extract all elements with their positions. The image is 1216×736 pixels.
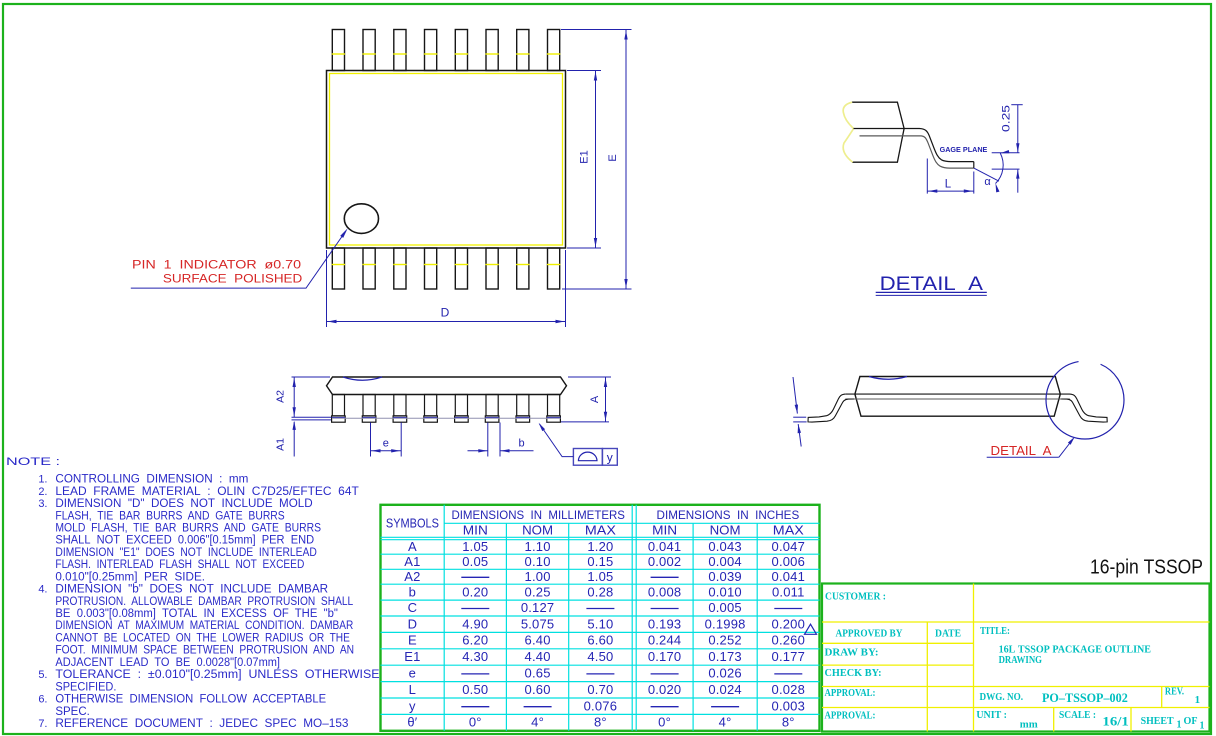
svg-text:0.041: 0.041 xyxy=(772,569,806,584)
svg-text:4.90: 4.90 xyxy=(462,616,488,631)
end view top arc mark xyxy=(869,377,907,380)
top view upper pin 8 xyxy=(548,30,560,71)
svg-text:DIMENSION "b" DOES NOT INC: DIMENSION "b" DOES NOT INCLUDE DAMBAR xyxy=(55,584,328,596)
svg-text:5.: 5. xyxy=(38,669,47,681)
top view lower pin 5 xyxy=(455,248,467,289)
svg-text:ADJACENT LEAD TO BE 0.0028: ADJACENT LEAD TO BE 0.0028"[0.07mm] xyxy=(55,657,280,669)
seating plane line through feet xyxy=(332,417,561,419)
svg-text:A: A xyxy=(408,539,417,554)
svg-text:0.043: 0.043 xyxy=(708,539,742,554)
svg-text:α: α xyxy=(984,176,991,188)
front view pin 8 xyxy=(548,395,560,416)
svg-text:OF: OF xyxy=(1184,716,1198,727)
dimension table green frame xyxy=(381,505,820,731)
svg-text:PO–TSSOP–002: PO–TSSOP–002 xyxy=(1042,691,1128,705)
svg-text:b: b xyxy=(409,584,416,599)
dimension b lines with outside arrows xyxy=(468,450,488,452)
svg-text:REV.: REV. xyxy=(1165,687,1185,698)
svg-text:UNIT :: UNIT : xyxy=(976,710,1007,721)
svg-text:1: 1 xyxy=(1177,720,1182,731)
front view pin 2 xyxy=(363,395,375,416)
svg-text:e: e xyxy=(383,438,389,450)
title block outer frame xyxy=(822,584,1210,732)
svg-text:y: y xyxy=(607,451,613,465)
seating plane datum symbol box xyxy=(573,449,602,466)
top view upper pin 6 xyxy=(486,30,498,71)
svg-text:FLASH, TIE BAR BURRS AND: FLASH, TIE BAR BURRS AND GATE BURRS xyxy=(55,510,285,522)
top view lower pin 4 xyxy=(425,248,437,289)
svg-text:0.076: 0.076 xyxy=(584,698,618,713)
svg-text:5.075: 5.075 xyxy=(521,616,555,631)
svg-text:FOOT. MINIMUM SPACE BETWEEN: FOOT. MINIMUM SPACE BETWEEN PROTRUSION A… xyxy=(55,645,354,657)
svg-text:DRAWING: DRAWING xyxy=(999,655,1043,666)
pin 1 indicator circle xyxy=(344,204,378,234)
svg-text:0.041: 0.041 xyxy=(648,539,682,554)
svg-text:0.252: 0.252 xyxy=(708,633,742,648)
svg-text:1: 1 xyxy=(1200,721,1205,732)
svg-text:MIN: MIN xyxy=(463,523,488,537)
svg-text:16/1: 16/1 xyxy=(1102,715,1129,729)
svg-text:16-pin TSSOP: 16-pin TSSOP xyxy=(1090,556,1203,579)
svg-text:CONTROLLING DIMENSION : mm: CONTROLLING DIMENSION : mm xyxy=(55,474,248,486)
svg-text:APPROVAL:: APPROVAL: xyxy=(825,711,876,722)
svg-text:DETAIL A: DETAIL A xyxy=(991,443,1052,458)
svg-text:NOM: NOM xyxy=(710,523,741,537)
svg-text:0.25: 0.25 xyxy=(1001,105,1013,132)
svg-text:0.28: 0.28 xyxy=(587,584,613,599)
svg-text:SPECIFIED.: SPECIFIED. xyxy=(55,681,116,693)
gage plane line xyxy=(992,152,1020,154)
svg-text:OTHERWISE DIMENSION FOLLOW: OTHERWISE DIMENSION FOLLOW ACCEPTABLE xyxy=(55,694,326,706)
svg-text:4.40: 4.40 xyxy=(525,649,551,664)
dimension E1 line xyxy=(595,71,597,249)
svg-text:A2: A2 xyxy=(275,390,287,403)
svg-text:4.: 4. xyxy=(38,584,47,596)
svg-text:0.173: 0.173 xyxy=(708,649,742,664)
svg-text:16L TSSOP PACKAGE OUTLINE: 16L TSSOP PACKAGE OUTLINE xyxy=(999,645,1152,656)
svg-text:0.010: 0.010 xyxy=(708,584,742,599)
dimension e line xyxy=(371,450,402,452)
dimension e extension lines xyxy=(370,423,372,457)
svg-text:0.170: 0.170 xyxy=(648,649,682,664)
svg-text:0.039: 0.039 xyxy=(708,569,742,584)
svg-text:4.30: 4.30 xyxy=(462,649,488,664)
svg-text:DWG. NO.: DWG. NO. xyxy=(980,692,1024,703)
svg-text:DIMENSION "E1" DOES NOT IN: DIMENSION "E1" DOES NOT INCLUDE INTERLEA… xyxy=(55,547,317,559)
svg-text:DATE: DATE xyxy=(935,629,961,640)
svg-text:C: C xyxy=(408,600,418,615)
svg-text:θ′: θ′ xyxy=(407,715,417,730)
svg-text:CHECK BY:: CHECK BY: xyxy=(825,668,882,679)
svg-text:0.010"[0.25mm] PER SIDE.: 0.010"[0.25mm] PER SIDE. xyxy=(55,571,205,583)
front view pin 6 xyxy=(486,395,498,416)
dimension A2 extension line xyxy=(292,376,331,378)
seating line at lead tip xyxy=(992,168,1020,170)
svg-text:SYMBOLS: SYMBOLS xyxy=(386,516,439,531)
svg-text:0.70: 0.70 xyxy=(587,682,613,697)
svg-text:APPROVED BY: APPROVED BY xyxy=(836,629,904,640)
svg-text:GAGE PLANE: GAGE PLANE xyxy=(940,147,988,154)
svg-text:NOTE :: NOTE : xyxy=(6,456,60,468)
svg-text:0.028: 0.028 xyxy=(772,682,806,697)
svg-text:0.002: 0.002 xyxy=(648,554,682,569)
svg-text:mm: mm xyxy=(1020,720,1039,731)
svg-text:1.00: 1.00 xyxy=(525,569,551,584)
svg-text:0.244: 0.244 xyxy=(648,633,682,648)
svg-text:0.260: 0.260 xyxy=(772,633,806,648)
front view pin 7 xyxy=(517,395,529,416)
svg-text:0.005: 0.005 xyxy=(708,600,742,615)
top view lower pin 2 xyxy=(363,248,375,289)
top view body yellow inner outline xyxy=(330,74,563,246)
svg-text:0.127: 0.127 xyxy=(521,600,555,615)
svg-text:6.40: 6.40 xyxy=(525,633,551,648)
svg-text:1: 1 xyxy=(1195,694,1201,706)
seating plane reference lines xyxy=(292,416,332,418)
L dimension xyxy=(926,159,928,194)
detail A body break outline xyxy=(852,102,904,162)
svg-text:0.60: 0.60 xyxy=(525,682,551,697)
svg-text:0°: 0° xyxy=(658,715,671,730)
svg-text:1.: 1. xyxy=(38,474,47,486)
svg-text:DIMENSION "D" DOES NOT INC: DIMENSION "D" DOES NOT INCLUDE MOLD xyxy=(55,498,312,510)
top view lower pin 3 xyxy=(394,248,406,289)
svg-text:1.20: 1.20 xyxy=(587,539,613,554)
svg-text:0.15: 0.15 xyxy=(587,554,613,569)
front view top arc mark xyxy=(343,377,382,380)
svg-text:4°: 4° xyxy=(531,715,544,730)
svg-text:0.020: 0.020 xyxy=(648,682,682,697)
svg-text:LEAD FRAME MATERIAL : OLIN: LEAD FRAME MATERIAL : OLIN C7D25/EFTEC 6… xyxy=(55,486,358,498)
svg-text:4°: 4° xyxy=(719,715,732,730)
svg-text:0.004: 0.004 xyxy=(708,554,742,569)
svg-text:0.011: 0.011 xyxy=(772,584,805,599)
dimension E1 extension lines xyxy=(567,70,601,72)
dimension E extension lines xyxy=(561,29,632,31)
detail A callout circle xyxy=(1046,361,1124,439)
svg-text:CUSTOMER :: CUSTOMER : xyxy=(825,592,886,603)
svg-text:7.: 7. xyxy=(38,718,47,730)
svg-text:MIN: MIN xyxy=(652,523,677,537)
svg-text:APPROVAL:: APPROVAL: xyxy=(825,688,876,699)
note 4 flag triangle in table xyxy=(805,624,817,634)
title block vertical dividers xyxy=(973,584,975,732)
svg-text:3.: 3. xyxy=(38,498,47,510)
svg-text:E: E xyxy=(408,633,417,648)
svg-text:0°: 0° xyxy=(469,715,482,730)
svg-text:BE 0.003"[0.08mm] TOTAL IN: BE 0.003"[0.08mm] TOTAL IN EXCESS OF THE… xyxy=(55,608,338,620)
dimension A2 line xyxy=(293,377,295,417)
front view pin 1 xyxy=(332,395,344,416)
svg-text:4.50: 4.50 xyxy=(587,649,613,664)
svg-text:TITLE:: TITLE: xyxy=(980,626,1010,637)
svg-text:A2: A2 xyxy=(404,569,420,584)
svg-text:DIMENSIONS IN INCHES: DIMENSIONS IN INCHES xyxy=(657,508,800,522)
top view package body xyxy=(327,71,566,249)
dimension b extension lines xyxy=(487,423,489,457)
svg-text:REFERENCE DOCUMENT : JEDEC: REFERENCE DOCUMENT : JEDEC SPEC MO–153 xyxy=(55,718,348,730)
svg-text:FLASH. INTERLEAD FLASH SHAL: FLASH. INTERLEAD FLASH SHALL NOT EXCEED xyxy=(55,559,304,571)
svg-text:b: b xyxy=(518,438,524,450)
svg-text:8°: 8° xyxy=(782,715,795,730)
detail A lead upper line xyxy=(854,129,974,162)
svg-text:0.25: 0.25 xyxy=(525,584,551,599)
svg-text:5.10: 5.10 xyxy=(587,616,613,631)
svg-text:E1: E1 xyxy=(579,150,591,163)
svg-text:L: L xyxy=(945,178,952,190)
svg-text:0.006: 0.006 xyxy=(772,554,806,569)
front view package body xyxy=(327,377,567,395)
top view lower pin 7 xyxy=(517,248,529,289)
svg-text:0.10: 0.10 xyxy=(525,554,551,569)
svg-text:MOLD FLASH, TIE BAR BURRS: MOLD FLASH, TIE BAR BURRS AND GATE BURRS xyxy=(55,523,321,535)
svg-text:SURFACE POLISHED: SURFACE POLISHED xyxy=(163,272,303,286)
svg-text:1.10: 1.10 xyxy=(525,539,551,554)
svg-text:E: E xyxy=(607,154,619,161)
table vertical grid lines xyxy=(443,505,445,731)
svg-text:0.047: 0.047 xyxy=(772,539,806,554)
svg-text:MAX: MAX xyxy=(773,523,805,537)
svg-text:CANNOT BE LOCATED ON THE: CANNOT BE LOCATED ON THE LOWER RADIUS OR… xyxy=(55,633,350,645)
top view upper pin 1 xyxy=(332,30,344,71)
svg-text:2.: 2. xyxy=(38,486,47,498)
0.25 dimension xyxy=(1011,104,1022,106)
svg-text:1.05: 1.05 xyxy=(462,539,488,554)
svg-text:6.: 6. xyxy=(38,694,47,706)
detail A break zigzag xyxy=(843,102,853,162)
svg-text:MAX: MAX xyxy=(585,523,617,537)
end view package body xyxy=(855,377,1060,417)
end view left lead xyxy=(808,394,854,422)
svg-text:0.008: 0.008 xyxy=(648,584,682,599)
svg-text:8°: 8° xyxy=(594,715,607,730)
svg-text:D: D xyxy=(441,306,450,320)
coplanarity y dimension xyxy=(793,377,797,414)
alpha angle flank line xyxy=(974,168,999,181)
svg-text:A: A xyxy=(589,395,601,403)
title block horizontal dividers xyxy=(822,621,1210,623)
svg-text:0.50: 0.50 xyxy=(462,682,488,697)
top view lower pin 8 xyxy=(548,248,560,289)
svg-text:PIN 1 INDICATOR ø0.70: PIN 1 INDICATOR ø0.70 xyxy=(132,258,301,272)
svg-text:SHEET: SHEET xyxy=(1141,716,1174,727)
front view pin 3 xyxy=(394,395,406,416)
front view pin 5 xyxy=(455,395,467,416)
dimension A line xyxy=(605,377,607,422)
svg-text:DIMENSIONS IN MILLIMETERS: DIMENSIONS IN MILLIMETERS xyxy=(451,508,625,522)
svg-text:0.003: 0.003 xyxy=(772,698,806,713)
top view upper pin 2 xyxy=(363,30,375,71)
dimension A extension lines xyxy=(568,376,611,378)
svg-text:0.65: 0.65 xyxy=(525,666,551,681)
dimension D extension lines xyxy=(326,250,328,327)
svg-text:TOLERANCE : ±0.010"[0.25mm]: TOLERANCE : ±0.010"[0.25mm] UNLESS OTHER… xyxy=(55,669,379,681)
top view lower pin 6 xyxy=(486,248,498,289)
datum leader line xyxy=(540,424,574,457)
svg-text:0.193: 0.193 xyxy=(648,616,682,631)
svg-text:PROTRUSION. ALLOWABLE DAMBAR: PROTRUSION. ALLOWABLE DAMBAR PROTRUSION … xyxy=(55,596,353,608)
svg-text:0.1998: 0.1998 xyxy=(705,616,746,631)
svg-text:0.20: 0.20 xyxy=(462,584,488,599)
svg-text:SCALE :: SCALE : xyxy=(1059,710,1096,721)
svg-text:e: e xyxy=(409,666,416,681)
end view right lead xyxy=(1061,394,1107,422)
dimension A1 line xyxy=(293,422,295,457)
svg-text:6.60: 6.60 xyxy=(587,633,613,648)
svg-text:DIMENSION AT MAXIMUM MATERI: DIMENSION AT MAXIMUM MATERIAL CONDITION.… xyxy=(55,620,353,632)
svg-text:A1: A1 xyxy=(404,554,420,569)
dimension D line xyxy=(327,321,566,323)
alpha angle arc xyxy=(996,153,1004,184)
svg-text:DRAW BY:: DRAW BY: xyxy=(825,648,879,659)
top view upper pin 4 xyxy=(425,30,437,71)
svg-text:SHALL NOT EXCEED 0.006"[0.1: SHALL NOT EXCEED 0.006"[0.15mm] PER END xyxy=(55,535,314,547)
svg-text:A1: A1 xyxy=(275,438,287,451)
svg-text:1.05: 1.05 xyxy=(587,569,613,584)
top view lower pin 1 xyxy=(332,248,344,289)
svg-text:0.177: 0.177 xyxy=(772,649,806,664)
dimension E line xyxy=(625,30,627,290)
front view pin 4 xyxy=(425,395,437,416)
top view upper pin 5 xyxy=(455,30,467,71)
detail A lead lower line xyxy=(860,136,974,168)
svg-text:0.026: 0.026 xyxy=(708,666,742,681)
svg-text:NOM: NOM xyxy=(522,523,553,537)
table horizontal grid lines xyxy=(444,522,819,524)
svg-text:6.20: 6.20 xyxy=(462,633,488,648)
pin 1 leader line xyxy=(131,231,346,288)
svg-text:D: D xyxy=(408,616,418,631)
svg-text:0.05: 0.05 xyxy=(462,554,488,569)
svg-text:0.024: 0.024 xyxy=(708,682,742,697)
detail A lead end cap xyxy=(973,162,975,169)
top view upper pin 3 xyxy=(394,30,406,71)
svg-text:y: y xyxy=(409,698,416,713)
end view lead frame lines through body xyxy=(846,393,1070,395)
svg-text:E1: E1 xyxy=(404,649,420,664)
svg-text:SPEC.: SPEC. xyxy=(55,706,89,718)
top view upper pin 7 xyxy=(517,30,529,71)
svg-text:L: L xyxy=(409,682,416,697)
svg-text:0.200: 0.200 xyxy=(772,616,806,631)
